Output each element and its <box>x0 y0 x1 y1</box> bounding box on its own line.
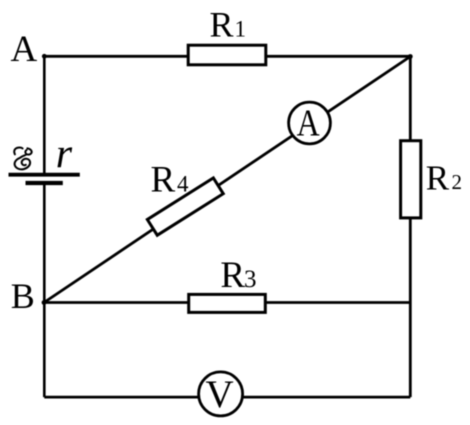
voltmeter U2 circle <box>199 372 243 416</box>
wire left lower (battery to bottom-left corner) <box>43 183 46 397</box>
svg-text:R: R <box>426 158 450 197</box>
svg-text:2: 2 <box>452 170 463 194</box>
svg-text:r: r <box>56 132 73 178</box>
wire B to right vertical <box>44 301 410 304</box>
battery short plate (negative) <box>26 181 63 185</box>
wire bottom <box>44 396 410 399</box>
svg-text:4: 4 <box>177 171 189 196</box>
svg-text:R: R <box>151 159 176 200</box>
svg-text:V: V <box>206 373 234 416</box>
ammeter U1 circle <box>289 102 331 144</box>
label EMF script E <box>14 148 31 170</box>
resistor R4 <box>147 178 223 235</box>
node A junction dot <box>42 54 47 59</box>
svg-text:3: 3 <box>244 266 257 293</box>
resistor R1 <box>188 45 266 65</box>
svg-text:A: A <box>11 29 38 70</box>
svg-text:R: R <box>220 255 245 296</box>
node top-right junction dot <box>408 54 413 59</box>
wire top A to top-right corner <box>44 55 410 58</box>
node B junction dot <box>42 300 47 305</box>
resistor R3 <box>189 294 266 312</box>
wire left upper (A to battery) <box>43 55 46 175</box>
battery long plate (positive) <box>9 173 80 177</box>
resistor R2 <box>401 141 421 218</box>
svg-text:B: B <box>11 276 35 316</box>
svg-text:A: A <box>297 102 321 144</box>
wire diagonal B to top-right corner <box>44 57 410 303</box>
svg-text:1: 1 <box>235 17 247 42</box>
svg-text:R: R <box>210 4 234 44</box>
wire right vertical <box>409 56 412 397</box>
